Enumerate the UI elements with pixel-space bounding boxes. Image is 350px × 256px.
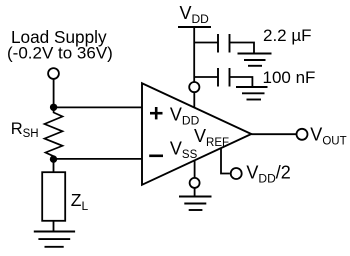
pin VSS circle [190,178,200,188]
load ZL box [42,172,65,221]
ground cap2 [236,87,268,100]
wire cap2 to ground [230,77,253,87]
terminal VDD/2 [231,168,242,179]
svg-text:(-0.2V to 36V): (-0.2V to 36V) [7,44,113,63]
pin + symbol [150,107,163,119]
resistor RSH [45,107,63,159]
node junction bottom [50,155,57,162]
ground ZL [34,232,75,247]
wire load supply terminal to node [53,79,55,105]
wire VDD rail down [193,27,195,82]
wire VSS pin [194,160,196,178]
wire node to ZL [53,159,55,172]
ground cap1 [238,54,272,66]
VDD supply rail [178,26,211,28]
capacitor C1 2.2uF [218,34,230,53]
ground VSS [179,197,212,211]
wire output [251,133,296,135]
svg-text:100 nF: 100 nF [263,68,316,87]
svg-text:2.2 µF: 2.2 µF [263,26,312,45]
terminal Load Supply [48,68,59,79]
node junction top [50,104,57,111]
wire ZL to ground [53,221,55,232]
pin VDD circle on op-amp [189,82,199,92]
wire VREF pin [221,148,230,174]
pin - symbol [149,155,163,158]
wire VDD pin to op-amp edge [193,93,195,108]
wire cap1 to ground [230,43,255,54]
wire + input [54,106,142,108]
wire cap2 branch [194,76,218,78]
wire cap1 branch [194,42,218,44]
op-amp U1 [142,83,251,185]
wire - input [54,158,143,160]
terminal VOUT [297,129,308,140]
capacitor C2 100nF [218,68,230,87]
wire VSS circle to ground [194,188,196,196]
